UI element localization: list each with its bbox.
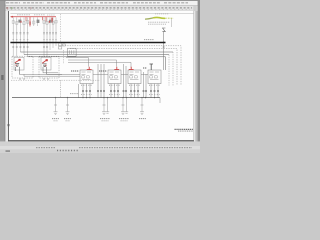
- status bar nav icons: [57, 150, 78, 152]
- relay K1 box: [14, 57, 24, 70]
- feed line 3: [20, 51, 173, 53]
- status bar text smudge: [36, 147, 56, 149]
- red feed drop node D: [45, 17, 47, 22]
- status bar left smudge: [6, 150, 11, 152]
- ground G2 label: [64, 118, 71, 120]
- coil T2 label: [99, 70, 107, 72]
- window top border: [0, 0, 200, 2]
- app window background: [0, 0, 200, 153]
- relay K2 pin wires: [43, 67, 47, 75]
- connector C1 symbol: [162, 28, 166, 31]
- white page: [8, 11, 193, 141]
- ground bus line: [12, 97, 160, 99]
- ignition coil T2 box: [108, 70, 121, 98]
- red feed drop node B: [29, 17, 31, 27]
- left panel strip right edge: [4, 1, 7, 148]
- dashed feed line 1: [63, 46, 182, 86]
- menu bar: [0, 1, 200, 6]
- fuse bodies group B: [43, 21, 45, 24]
- page background gap: [5, 11, 195, 142]
- coil T4 label: [143, 67, 147, 69]
- fuse column group B wires: [43, 17, 45, 57]
- toolbar: [0, 5, 200, 10]
- coil T4 connector mark: [150, 64, 154, 70]
- drop wire connector ticks: [82, 90, 159, 91]
- label row above fuses: [17, 14, 55, 16]
- ground G1: [54, 98, 58, 115]
- wire label near bus: [144, 39, 154, 41]
- relay K2 enclosure (dashed): [39, 56, 59, 78]
- relay K1 pin wires: [15, 67, 19, 75]
- fuse column group A wires: [13, 17, 56, 57]
- ignition coil T1 box: [80, 70, 93, 98]
- window right border: [198, 0, 200, 153]
- feed line 5: [28, 57, 166, 70]
- fuse bodies group A: [12, 20, 57, 24]
- wire from connector to bus: [163, 32, 165, 70]
- coil T1 highlight mark (red): [87, 67, 92, 70]
- relay K1 highlighted switch (red): [15, 59, 21, 75]
- relay K2 box: [41, 57, 51, 70]
- ground label second rows: [54, 120, 128, 122]
- label above highlighted wire: [155, 13, 169, 15]
- stub wires mid: [33, 17, 35, 26]
- wire under highlight: [171, 19, 173, 27]
- heavy bus line: [10, 42, 165, 44]
- ground G4 label: [119, 118, 129, 120]
- ground G4 pair: [121, 98, 128, 115]
- page right edge line: [193, 11, 196, 140]
- ignition coil T4 box: [148, 70, 161, 98]
- mid cluster connector stack: [58, 43, 76, 56]
- feed line 4: [24, 54, 169, 56]
- bus end drop: [159, 98, 161, 103]
- relay K1 contacts: [15, 64, 19, 67]
- scrollbar top button: [193, 6, 197, 11]
- highlighted wire (yellow): [145, 18, 153, 19]
- red tick on fuse B3: [49, 21, 50, 23]
- toolbar top separator: [0, 4, 200, 7]
- dashed sensor line (vertical): [60, 14, 62, 43]
- harness boundary (dashed): [11, 79, 100, 81]
- ground G1 label: [52, 118, 59, 120]
- enclosure ground drop (dashed): [60, 80, 62, 97]
- splice note text block: [148, 22, 170, 24]
- junction box U1: [68, 48, 77, 56]
- status bar light row: [0, 146, 200, 149]
- feed stubs into coil boxes: [93, 73, 148, 75]
- ground G5: [140, 98, 144, 115]
- relay output wires to ECU row: [19, 71, 80, 76]
- page footer text (LAND ROVER ref): [175, 129, 194, 131]
- red feed drop node A: [25, 17, 27, 21]
- page left edge dark line: [7, 11, 10, 141]
- wire id smudge above ground bus: [70, 93, 79, 95]
- relay K2 highlighted switch (red): [42, 59, 48, 74]
- relay K1 enclosure (dashed): [12, 56, 59, 78]
- frame corner tick: [8, 124, 10, 126]
- schematic frame top line: [10, 13, 193, 15]
- left panel icon: [1, 75, 3, 80]
- connector ticks row y47: [12, 46, 165, 47]
- red feed drop node C: [42, 17, 44, 20]
- enclosure stub pins: [20, 78, 48, 80]
- feed branch to injector row: [66, 58, 131, 68]
- battery feed bus (red): [10, 16, 56, 27]
- scrollbar track: [195, 11, 197, 147]
- connector ticks row y33: [12, 33, 57, 34]
- coil T2 highlight mark (red): [114, 67, 119, 70]
- pin number smudges: [81, 85, 160, 94]
- cluster drop (dashed): [63, 50, 65, 64]
- connector ticks row y39.5: [12, 38, 56, 40]
- relay block dark A3: [18, 20, 21, 23]
- ground G2: [66, 98, 70, 115]
- bus junction dot: [163, 42, 165, 44]
- relay block dark A7: [37, 20, 40, 23]
- relay K2 contacts: [43, 64, 47, 67]
- menu bar text smudge: [6, 2, 188, 4]
- dashed feed line 2: [70, 49, 177, 86]
- relay block dark B3: [49, 20, 51, 23]
- ground bus junction dots: [55, 97, 155, 98]
- inter-box drop wires: [79, 64, 147, 98]
- ignition coil T3 box: [128, 70, 141, 98]
- ground G5 label: [139, 118, 146, 120]
- ground G3 pair: [102, 98, 109, 115]
- coil T1 label: [71, 70, 79, 72]
- left panel strip: [0, 1, 5, 148]
- toolbar icon smudge: [6, 7, 192, 9]
- ground G3 label: [100, 118, 110, 120]
- coil T3 highlight mark (red): [129, 67, 134, 70]
- toolbar colored icon tints: [7, 7, 9, 9]
- red tick on fuse A3: [20, 21, 21, 23]
- page bottom edge dark line: [8, 140, 194, 141]
- status bar: [0, 141, 200, 153]
- red fuse F-hl: [51, 18, 53, 23]
